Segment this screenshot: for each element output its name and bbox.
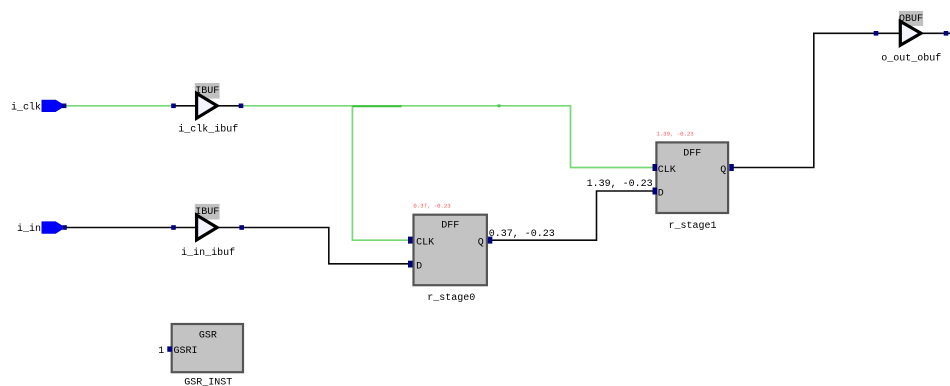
svg-text:i_clk_ibuf: i_clk_ibuf [178,124,238,136]
svg-text:1.39, -0.23: 1.39, -0.23 [656,131,693,137]
svg-text:GSR_INST: GSR_INST [184,377,232,386]
svg-text:CLK: CLK [416,238,434,249]
svg-text:o_out_obuf: o_out_obuf [881,52,941,64]
svg-text:0.37, -0.23: 0.37, -0.23 [413,204,450,210]
svg-text:i_clk: i_clk [11,101,41,113]
svg-text:r_stage0: r_stage0 [427,293,475,304]
svg-text:CLK: CLK [658,165,676,176]
svg-text:1.39, -0.23: 1.39, -0.23 [587,179,653,190]
svg-text:0.37, -0.23: 0.37, -0.23 [489,229,555,240]
svg-text:GSRI: GSRI [174,346,198,357]
svg-text:D: D [658,189,664,200]
svg-text:1: 1 [158,346,164,357]
svg-text:i_in: i_in [17,223,41,235]
svg-text:D: D [416,262,422,273]
svg-text:GSR: GSR [199,330,217,341]
svg-text:Q: Q [720,165,726,176]
svg-text:DFF: DFF [683,149,701,160]
svg-text:Q: Q [478,238,484,249]
svg-text:DFF: DFF [441,220,459,231]
svg-text:r_stage1: r_stage1 [668,221,716,232]
svg-text:i_in_ibuf: i_in_ibuf [181,247,235,259]
